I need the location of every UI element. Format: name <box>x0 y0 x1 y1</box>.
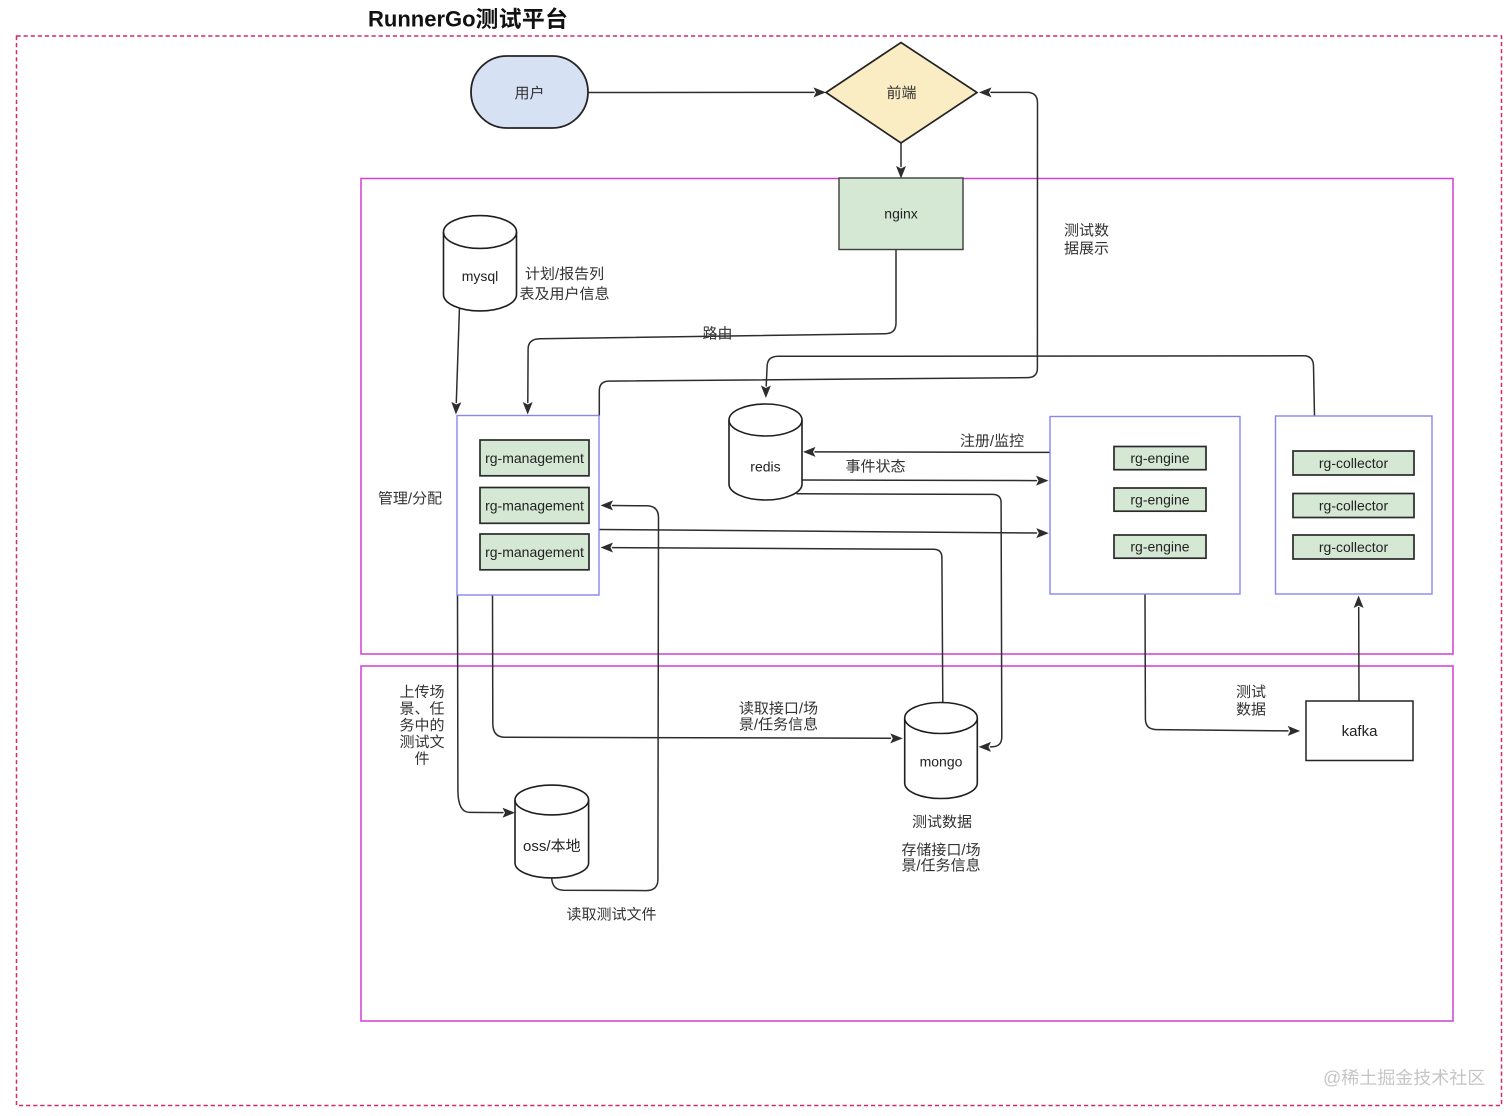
node mongo cylinder <box>905 702 978 798</box>
node rg-collector 1 <box>1293 451 1414 475</box>
label 测试数据 kafka <box>1237 685 1250 699</box>
wire rg-management→mongo 读取接口 <box>493 595 891 739</box>
svg-text:nginx: nginx <box>884 206 917 222</box>
wire mongo→rg-management <box>613 548 943 704</box>
svg-text:mysql: mysql <box>462 268 499 284</box>
wire rg-management→前端 测试数据展示 <box>599 92 1037 415</box>
svg-text:rg-management: rg-management <box>485 450 584 466</box>
svg-text:rg-management: rg-management <box>485 544 584 560</box>
label 事件状态 <box>846 459 860 473</box>
node 用户 stadium <box>471 56 588 128</box>
svg-text:rg-collector: rg-collector <box>1319 498 1389 514</box>
node nginx <box>839 178 963 250</box>
wire oss→rg-management 读取测试文件 <box>552 506 659 891</box>
node rg-management 3 <box>480 534 589 570</box>
container rg-engine group <box>1050 417 1240 595</box>
label 注册/监控 <box>961 433 975 447</box>
node kafka <box>1306 701 1413 761</box>
wire rg-engine→redis 注册/监控 <box>815 451 1050 454</box>
svg-text:rg-engine: rg-engine <box>1130 450 1189 466</box>
svg-text:rg-engine: rg-engine <box>1130 492 1189 508</box>
label 存储接口/场景/任务信息 <box>902 842 916 856</box>
wire redis→rg-engine 事件状态 <box>802 479 1037 482</box>
svg-text:@: @ <box>1323 1068 1341 1088</box>
node rg-engine 3 <box>1114 535 1206 558</box>
node rg-engine 2 <box>1114 488 1206 511</box>
svg-text:rg-engine: rg-engine <box>1130 539 1189 555</box>
wire redis→mongo <box>797 494 1002 747</box>
svg-text:redis: redis <box>750 458 780 474</box>
wire rg-engine→kafka 测试数据 <box>1145 594 1288 731</box>
wire mysql→rg-management <box>456 307 459 403</box>
node mysql cylinder <box>444 216 517 311</box>
svg-text:rg-collector: rg-collector <box>1319 455 1389 471</box>
label 测试数据展示 <box>1065 223 1078 237</box>
node 前端 diamond <box>826 43 977 144</box>
node rg-collector 3 <box>1293 535 1414 559</box>
node rg-engine 1 <box>1114 447 1206 470</box>
wire kafka→rg-collector <box>1358 608 1360 702</box>
container rg-management group <box>457 416 599 596</box>
node oss/本地 cylinder <box>515 785 589 878</box>
label 读取接口/场景/任务信息 <box>740 701 754 715</box>
svg-text:oss/: oss/ <box>523 838 551 855</box>
wire rg-management→rg-engine <box>599 530 1036 534</box>
wire nginx→rg-management 路由 <box>528 250 896 403</box>
svg-text:kafka: kafka <box>1342 723 1379 740</box>
node rg-collector 2 <box>1293 494 1414 518</box>
label 计划/报告列表及用户信息 <box>526 266 540 280</box>
label 上传场景、任务中的测试文件 <box>400 685 413 698</box>
svg-text:mongo: mongo <box>920 754 963 770</box>
wire 用户→前端 <box>588 91 814 93</box>
node rg-management 2 <box>480 488 589 524</box>
node redis cylinder <box>729 404 802 500</box>
wire rg-management→oss 上传测试文件 <box>458 595 504 813</box>
label 读取测试文件 <box>567 907 581 921</box>
wire rg-collector→redis <box>766 356 1314 416</box>
label 管理/分配 <box>379 491 392 505</box>
label 路由 <box>703 326 717 340</box>
upper zone frame <box>361 179 1453 655</box>
container rg-collector group <box>1276 416 1433 594</box>
label 测试数据 mongo <box>913 815 926 829</box>
wire 前端→nginx <box>900 144 902 167</box>
svg-text:rg-collector: rg-collector <box>1319 539 1389 555</box>
svg-text:RunnerGo: RunnerGo <box>368 7 476 32</box>
lower zone frame <box>361 666 1453 1021</box>
svg-text:rg-management: rg-management <box>485 498 584 514</box>
node rg-management 1 <box>480 440 589 476</box>
